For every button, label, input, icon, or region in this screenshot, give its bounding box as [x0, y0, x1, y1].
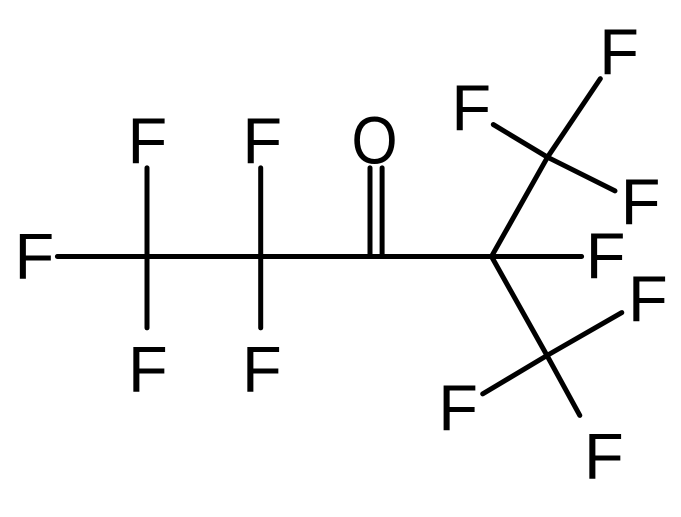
bond F12-C6 [483, 356, 547, 394]
svg-text:F: F [128, 104, 168, 177]
svg-text:F: F [242, 332, 282, 405]
bond C1-C2 [147, 254, 261, 259]
svg-text:F: F [628, 262, 668, 335]
svg-text:F: F [586, 219, 626, 292]
double bond C3=O right line [380, 168, 385, 255]
double bond C3=O left line [368, 168, 373, 255]
bond C4-C6 [492, 257, 548, 356]
bond C5-F9 [548, 157, 616, 191]
svg-text:F: F [128, 332, 168, 405]
svg-text:F: F [438, 371, 478, 444]
svg-text:F: F [621, 165, 661, 238]
bond C2-F3 [258, 168, 263, 257]
bond C5-F8 [548, 79, 601, 158]
svg-text:F: F [599, 15, 639, 88]
svg-text:F: F [242, 104, 282, 177]
bond C4-C5 [492, 157, 548, 256]
bond C4-F10 [492, 254, 582, 259]
bond C2-C3 [261, 254, 376, 259]
svg-text:O: O [352, 104, 398, 178]
svg-text:F: F [584, 419, 624, 492]
svg-text:F: F [14, 220, 54, 293]
bond C2-F6 [258, 257, 263, 328]
bond F1-C1 [57, 254, 147, 259]
bond C3-C4 [376, 254, 492, 259]
bond C1-F5 [145, 257, 150, 328]
svg-text:F: F [451, 71, 491, 144]
bond C1-F2 [145, 168, 150, 257]
bond C6-F13 [547, 356, 580, 416]
bond F7-C5 [493, 125, 547, 158]
bond C6-F11 [547, 313, 622, 356]
